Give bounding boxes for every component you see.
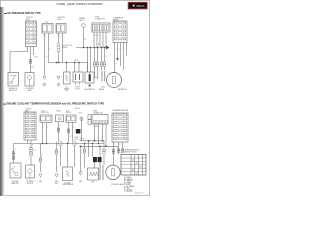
svg-text:3: 3 bbox=[116, 27, 117, 29]
wire to lamp box bbox=[30, 156, 32, 165]
svg-text:L : BLUE: L : BLUE bbox=[124, 184, 130, 186]
inline connector drop2 bbox=[55, 150, 58, 154]
ground 2-2 bbox=[55, 174, 58, 177]
junction2 bbox=[88, 140, 89, 141]
svg-text:BR: BROWN: BR: BROWN bbox=[124, 179, 133, 181]
drop to gnd 1b bbox=[40, 162, 42, 172]
junction bbox=[78, 62, 79, 63]
wire drop to condenser bbox=[101, 48, 103, 63]
junction bbox=[83, 47, 84, 48]
svg-text:ENGINE OIL: ENGINE OIL bbox=[9, 88, 18, 90]
bus end arrow bbox=[106, 46, 110, 50]
svg-text:4: 4 bbox=[32, 118, 33, 120]
junction2 bbox=[94, 140, 95, 141]
svg-text:OIL PRESS: OIL PRESS bbox=[26, 181, 34, 183]
svg-text:11: 11 bbox=[115, 134, 117, 136]
junction2 bbox=[46, 143, 47, 144]
svg-text:DEFOG: DEFOG bbox=[75, 108, 80, 110]
drop A/C bbox=[56, 142, 58, 151]
oil pressure warning lamp box bbox=[25, 73, 34, 87]
wire drop 4 bbox=[97, 48, 99, 63]
svg-text:JOINT: JOINT bbox=[93, 111, 97, 113]
svg-text:14: 14 bbox=[32, 136, 34, 138]
wire C-05 to bus bbox=[48, 33, 50, 63]
inline connector d4 bbox=[96, 62, 99, 66]
wire C-05 down bbox=[42, 122, 44, 143]
svg-text:0.85B: 0.85B bbox=[74, 60, 78, 62]
oil pressure lamp box 2 bbox=[26, 165, 35, 178]
junction bbox=[101, 47, 102, 48]
svg-text:11: 11 bbox=[26, 133, 28, 135]
svg-text:G: G bbox=[15, 149, 16, 151]
drop 7 bbox=[99, 146, 101, 157]
wire to diode L bbox=[74, 63, 76, 76]
small 2-cell connector left of joint bbox=[88, 115, 91, 125]
bus lower horizontal bbox=[49, 62, 88, 64]
svg-text:W : WHITE: W : WHITE bbox=[124, 189, 132, 191]
svg-text:4: 4 bbox=[123, 119, 124, 121]
svg-text:6: 6 bbox=[33, 31, 34, 33]
svg-text:JUNCTION: JUNCTION bbox=[41, 112, 49, 114]
junction bbox=[58, 62, 59, 63]
svg-text:CONNECTOR: CONNECTOR bbox=[93, 112, 104, 114]
connector C-22 ECU (diagram 2) bbox=[24, 112, 36, 140]
wire joint connector drop bbox=[105, 32, 107, 48]
svg-text:2: 2 bbox=[33, 23, 34, 25]
wire drop to alternator 1 bbox=[87, 48, 89, 73]
ground 2-3 bbox=[79, 172, 82, 175]
svg-text:3: 3 bbox=[27, 118, 28, 120]
svg-text:12: 12 bbox=[33, 43, 35, 45]
inline connector drop4 bbox=[83, 149, 86, 153]
wire C-05 down 2 bbox=[46, 122, 48, 143]
inline connector L2 a bbox=[12, 152, 15, 155]
svg-text:7: 7 bbox=[116, 35, 117, 37]
svg-text:CONTINUITY CHECK: CONTINUITY CHECK bbox=[122, 151, 137, 153]
svg-text:ENGINE OIL: ENGINE OIL bbox=[118, 89, 127, 91]
svg-text:12: 12 bbox=[32, 133, 34, 135]
wire arrow bbox=[116, 58, 119, 61]
wire drop to condenser 2b bbox=[104, 66, 106, 70]
svg-text:7: 7 bbox=[27, 125, 28, 127]
svg-text:C-05: C-05 bbox=[41, 110, 44, 112]
junction2 bbox=[84, 143, 85, 144]
junction2 bbox=[92, 143, 93, 144]
wire meter stub 3 bbox=[123, 43, 125, 71]
meter stub 3 bbox=[122, 142, 124, 149]
junction bbox=[90, 47, 91, 48]
junction2 bbox=[98, 143, 99, 144]
wire coil to bus bbox=[58, 52, 60, 63]
svg-text:TEMP SENSOR: TEMP SENSOR bbox=[62, 184, 74, 186]
condenser element 2 bbox=[100, 165, 103, 180]
svg-text:9: 9 bbox=[116, 39, 117, 41]
svg-text:C-22 ECU: C-22 ECU bbox=[26, 17, 33, 19]
svg-text:SWITCH: SWITCH bbox=[27, 183, 33, 185]
drop 8b bbox=[103, 154, 105, 165]
wire ECU pin to bus bbox=[27, 140, 29, 144]
wire ECU pin 2 bbox=[30, 140, 32, 148]
drop joint circle 1 bbox=[60, 145, 62, 166]
svg-text:9: 9 bbox=[27, 129, 28, 131]
svg-text:9: 9 bbox=[28, 39, 29, 41]
wire junction to bus bbox=[62, 33, 64, 63]
svg-text:1 3 5 7 9: 1 3 5 7 9 bbox=[94, 35, 100, 37]
svg-text:1: 1 bbox=[28, 23, 29, 25]
joint wire 3 bbox=[102, 124, 104, 141]
svg-text:0.85B: 0.85B bbox=[75, 137, 79, 139]
wire drop to condenser b bbox=[101, 66, 103, 70]
wire to oil pressure unit bbox=[66, 63, 68, 73]
wire meter stub 1 bbox=[117, 43, 119, 59]
svg-text:13: 13 bbox=[115, 138, 117, 140]
wire drop 4b bbox=[97, 66, 99, 77]
alternator box 2 bbox=[88, 168, 99, 180]
svg-text:7: 7 bbox=[28, 35, 29, 37]
joint node circle 2 bbox=[73, 142, 77, 146]
wire diode gnd R bbox=[79, 82, 81, 85]
wire joint connector drop bbox=[102, 32, 104, 48]
svg-text:6: 6 bbox=[32, 121, 33, 123]
svg-text:14: 14 bbox=[123, 138, 125, 140]
inline connector d3 bbox=[93, 62, 96, 66]
svg-text:2: 2 bbox=[123, 23, 124, 25]
svg-text:PRESS SW: PRESS SW bbox=[9, 90, 18, 92]
combination meter connector (2-col) bbox=[113, 21, 127, 43]
svg-text:JOINT: JOINT bbox=[95, 17, 99, 19]
svg-text:1: 1 bbox=[27, 114, 28, 116]
wire fusible link down bbox=[83, 27, 85, 47]
svg-text:Y: Y bbox=[98, 56, 99, 58]
connector C-05 bbox=[42, 24, 53, 34]
connector C-07 bbox=[66, 115, 76, 122]
svg-text:8: 8 bbox=[32, 125, 33, 127]
left page edge shadow bbox=[0, 7, 5, 196]
junction2 bbox=[42, 143, 43, 144]
inline connector mid bbox=[57, 128, 60, 132]
junction bbox=[74, 62, 75, 63]
wire C-07 down 2 bbox=[72, 122, 74, 141]
drop 6 bbox=[92, 144, 94, 158]
svg-text:▬ ENGINE COOLANT TEMPERATURE S: ▬ ENGINE COOLANT TEMPERATURE SENSOR and … bbox=[3, 101, 104, 105]
wire ECU to diode box bbox=[30, 47, 32, 73]
wire joint connector drop bbox=[93, 32, 95, 48]
bus 2 upper bbox=[80, 140, 105, 142]
svg-text:2: 2 bbox=[32, 114, 33, 116]
svg-text:4: 4 bbox=[33, 27, 34, 29]
junction bbox=[104, 47, 105, 48]
svg-text:B: B bbox=[81, 138, 82, 140]
svg-text:HOME_(OEM) WIRING-FORWARD: HOME_(OEM) WIRING-FORWARD bbox=[57, 2, 103, 6]
svg-text:13: 13 bbox=[26, 136, 28, 138]
alternator box bbox=[85, 72, 94, 83]
wire stub bbox=[33, 47, 35, 56]
svg-text:3: 3 bbox=[116, 119, 117, 121]
combination meter connector (diagram 2) bbox=[112, 113, 128, 142]
svg-text:JUNCTION: JUNCTION bbox=[57, 17, 65, 19]
inline connector drop8 bbox=[103, 150, 106, 154]
junction bbox=[87, 47, 88, 48]
arrow d3 bbox=[94, 77, 96, 79]
loop leg to alternator bbox=[87, 63, 89, 73]
svg-text:Y : YELLOW: Y : YELLOW bbox=[124, 191, 133, 193]
junction2 bbox=[67, 143, 68, 144]
svg-text:11: 11 bbox=[28, 43, 30, 45]
inline connector meter bbox=[112, 150, 115, 154]
junction bbox=[66, 62, 67, 63]
wire meter stub 2 bbox=[120, 43, 122, 67]
svg-text:10: 10 bbox=[33, 39, 35, 41]
svg-text:10: 10 bbox=[32, 129, 34, 131]
drop 6b bbox=[94, 162, 96, 168]
wire junction block to joint coil bbox=[58, 33, 60, 43]
svg-text:5: 5 bbox=[28, 31, 29, 33]
back button top right bbox=[128, 2, 147, 9]
svg-text:10: 10 bbox=[122, 39, 124, 41]
bus upper horizontal bbox=[76, 47, 106, 49]
svg-text:BLOCK: BLOCK bbox=[57, 19, 62, 21]
svg-text:6: 6 bbox=[123, 123, 124, 125]
drop to gnd 1 bbox=[40, 144, 42, 159]
svg-text:G: G bbox=[60, 125, 61, 127]
joint coil bbox=[57, 43, 60, 52]
wire horizontal to left bbox=[10, 51, 28, 53]
drop 4b bbox=[84, 153, 86, 168]
junction bbox=[94, 47, 95, 48]
ground under alternator bbox=[88, 85, 91, 88]
wire to diode R bbox=[78, 63, 80, 76]
black connector pair bbox=[93, 157, 97, 162]
wire B-13 upper bbox=[81, 117, 83, 141]
svg-text:CONNECTOR: CONNECTOR bbox=[95, 18, 106, 20]
wire drop 3 bbox=[94, 48, 96, 63]
svg-text:TEMP UNIT: TEMP UNIT bbox=[11, 183, 19, 185]
inline connector d5 bbox=[100, 62, 103, 66]
svg-text:B-13: B-13 bbox=[75, 139, 78, 141]
svg-text:8: 8 bbox=[123, 35, 124, 37]
junction2 bbox=[99, 146, 100, 147]
svg-text:MB-14 13-8: MB-14 13-8 bbox=[135, 193, 143, 195]
capacitor element bbox=[102, 71, 105, 82]
inline connector meter wire 2 bbox=[117, 149, 120, 153]
drop 8 bbox=[103, 141, 105, 150]
engine coolant temperature gauge unit box bbox=[10, 163, 21, 178]
svg-text:9: 9 bbox=[116, 130, 117, 132]
svg-text:B: B bbox=[116, 63, 117, 65]
junction2 bbox=[102, 140, 103, 141]
fusible link 2 bbox=[80, 117, 83, 120]
svg-text:E-3: E-3 bbox=[34, 150, 36, 152]
inline connector d6 bbox=[103, 62, 106, 66]
black connector pair b bbox=[98, 157, 102, 162]
svg-text:12: 12 bbox=[123, 134, 125, 136]
svg-text:LG: LT GREEN: LG: LT GREEN bbox=[124, 186, 134, 188]
inline connector L2 b bbox=[12, 156, 15, 159]
inline connector drop1 bbox=[39, 158, 42, 162]
connector C-05 (diagram 2) bbox=[40, 115, 52, 122]
svg-text:(MPI): (MPI) bbox=[26, 19, 30, 21]
junction block connector bbox=[56, 24, 66, 34]
svg-text:FUSIBLE: FUSIBLE bbox=[79, 18, 85, 20]
drop to gnd 3 bbox=[80, 146, 82, 172]
arrow d4 bbox=[97, 77, 99, 79]
svg-text:8: 8 bbox=[123, 126, 124, 128]
svg-text:5B: 5B bbox=[85, 39, 87, 41]
wire diode gnd L bbox=[75, 82, 77, 85]
svg-text:0.5: 0.5 bbox=[46, 56, 48, 58]
svg-text:UNIT: UNIT bbox=[65, 90, 69, 92]
svg-text:1: 1 bbox=[116, 23, 117, 25]
svg-text:B: B bbox=[42, 155, 43, 157]
svg-text:5: 5 bbox=[27, 121, 28, 123]
svg-text:C-05: C-05 bbox=[45, 21, 49, 23]
ground (body) bbox=[43, 76, 46, 79]
oil pressure switch box bbox=[8, 73, 19, 87]
junction bbox=[56, 62, 57, 63]
wire joint connector drop bbox=[96, 32, 98, 48]
bus 2 main bbox=[28, 143, 105, 145]
joint wire 2 bbox=[98, 124, 100, 144]
svg-text:4: 4 bbox=[123, 27, 124, 29]
meter wire 2 bbox=[118, 142, 120, 155]
fusible link 1 bbox=[82, 24, 86, 28]
wire C-05 to ground bbox=[44, 33, 46, 76]
svg-text:B: B bbox=[32, 145, 33, 147]
svg-text:C-07: C-07 bbox=[66, 110, 69, 112]
svg-text:GLOW: GLOW bbox=[75, 86, 80, 88]
joint node circle 1 bbox=[59, 142, 63, 146]
svg-text:YG: YG bbox=[106, 56, 108, 58]
svg-text:OIL PRESSURE SWITCH: OIL PRESSURE SWITCH bbox=[122, 150, 139, 152]
svg-text:BACK: BACK bbox=[137, 4, 145, 8]
meter wire down to gauge 2 bbox=[113, 142, 115, 165]
drop to temp sensor bbox=[67, 144, 69, 168]
svg-text:OIL: OIL bbox=[65, 86, 68, 88]
joint connector (diagram 2) bbox=[92, 115, 108, 125]
svg-text:BODY: BODY bbox=[42, 83, 46, 85]
svg-text:▬ OIL PRESSURE SWITCH TYPE: ▬ OIL PRESSURE SWITCH TYPE bbox=[4, 11, 41, 15]
svg-text:6: 6 bbox=[123, 31, 124, 33]
svg-text:1 3 5: 1 3 5 bbox=[95, 126, 98, 128]
svg-text:5: 5 bbox=[116, 123, 117, 125]
svg-text:5: 5 bbox=[116, 31, 117, 33]
wire from ECU pin bbox=[27, 47, 29, 52]
inline connector left bbox=[30, 147, 33, 151]
svg-text:3: 3 bbox=[28, 27, 29, 29]
svg-text:1: 1 bbox=[116, 115, 117, 117]
engine coolant temp sensor box bbox=[63, 167, 73, 181]
oil pressure gauge circle bbox=[107, 73, 122, 88]
inline connector meter 2 bbox=[121, 149, 124, 153]
oil pressure unit box bbox=[64, 72, 71, 84]
wire drop to alternator 2 bbox=[90, 48, 92, 73]
inline connector A-51 bbox=[29, 60, 32, 64]
connector C-22 (2-col block) bbox=[26, 21, 37, 47]
inline connector left b bbox=[30, 152, 33, 156]
diode box bbox=[73, 72, 83, 82]
coolant temp gauge circle bbox=[106, 165, 120, 179]
svg-text:10: 10 bbox=[123, 130, 125, 132]
wire joint connector drop bbox=[99, 32, 101, 48]
joint connector bbox=[92, 23, 110, 32]
wire horizontal left bbox=[14, 143, 28, 145]
svg-text:Y: Y bbox=[58, 145, 59, 147]
svg-text:8: 8 bbox=[33, 35, 34, 37]
drop joint circle 2 bbox=[74, 145, 76, 167]
wire meter stub 4 bbox=[126, 43, 128, 57]
wire drop 3b bbox=[94, 66, 96, 77]
wire down to gauge unit bbox=[13, 144, 15, 164]
junction2 bbox=[80, 146, 81, 147]
ground 2-1 bbox=[39, 174, 42, 177]
svg-text:C-22 ECU: C-22 ECU bbox=[25, 109, 32, 111]
svg-text:B-13: B-13 bbox=[79, 113, 82, 115]
svg-text:B: B bbox=[50, 49, 51, 51]
wire C-07 down bbox=[68, 122, 70, 143]
wire down to oil pressure switch bbox=[9, 52, 11, 73]
wire A/C down bbox=[58, 122, 60, 142]
black connector B-13 bbox=[76, 129, 81, 134]
svg-text:BLOCK: BLOCK bbox=[66, 112, 71, 114]
wire drop to condenser 2 bbox=[104, 48, 106, 63]
junction bbox=[97, 47, 98, 48]
svg-text:B: B bbox=[74, 127, 75, 129]
svg-text:R : RED: R : RED bbox=[124, 188, 130, 190]
bus 2 lower bbox=[80, 145, 119, 147]
drop A/C b bbox=[56, 154, 58, 172]
svg-text:PRESS: PRESS bbox=[64, 88, 69, 90]
svg-text:G : GREEN: G : GREEN bbox=[124, 181, 132, 183]
ground (engine) bbox=[57, 76, 60, 79]
joint wire 1 bbox=[94, 124, 96, 141]
svg-text:2: 2 bbox=[123, 115, 124, 117]
svg-text:0.5: 0.5 bbox=[70, 136, 72, 138]
svg-text:OIL PRESS: OIL PRESS bbox=[26, 88, 34, 90]
drop 4 bbox=[84, 144, 86, 150]
joint wire 4 bbox=[105, 124, 107, 146]
drop 5 bbox=[88, 141, 90, 157]
connector to A/C bbox=[56, 115, 64, 122]
drop 7b bbox=[99, 162, 101, 165]
page border bbox=[0, 0, 149, 195]
wire meter to gauge circle bbox=[114, 43, 116, 73]
continuity table bbox=[121, 155, 146, 176]
inline connector mid 2 bbox=[67, 129, 70, 133]
svg-text:7: 7 bbox=[116, 126, 117, 128]
junction2 bbox=[105, 146, 106, 147]
